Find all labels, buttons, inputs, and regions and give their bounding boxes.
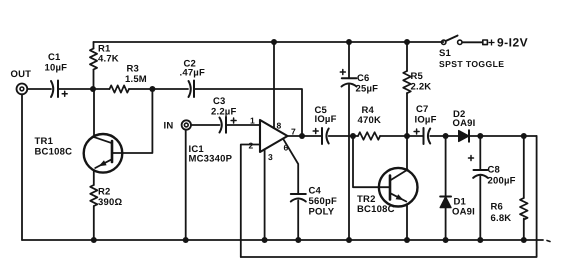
svg-text:BC108C: BC108C [35,147,73,158]
resistor R3 [110,64,147,93]
svg-text:C8: C8 [488,165,501,176]
wire IN ground drop [185,130,187,240]
resistor R6 [491,136,528,240]
wire C2 to output node corner [194,89,302,136]
wire TR2 emitter [406,204,408,240]
junction TR2 collector node [404,133,410,139]
wire D2 to right corner [469,135,537,137]
wire OUT ground drop [21,94,23,240]
svg-text:R5: R5 [411,71,424,82]
junction bus pin3 [262,237,268,243]
wire top supply rail [94,41,444,43]
svg-text:C6: C6 [357,73,370,84]
wire R4 to C7 [380,135,424,137]
svg-text:MC3340P: MC3340P [189,154,233,165]
junction output node [299,133,305,139]
junction bus D1 [443,237,449,243]
capacitor C3 [211,96,236,133]
wire TR2 base [353,136,390,187]
svg-text:1: 1 [250,116,255,126]
ground bus [22,239,543,241]
wire IN to C3 [192,124,220,126]
transistor TR1 [35,134,123,173]
wire C1 to R3 [58,88,110,90]
wire C3 to pin 1 [226,124,260,126]
capacitor C2 [180,59,205,98]
junction bus C4 [295,237,301,243]
junction rail pin8 [271,39,277,45]
wire C7 to D2 [430,135,459,137]
svg-text:C7: C7 [416,104,429,115]
svg-text:IN: IN [164,121,174,132]
junction node base riser [149,86,155,92]
junction rail C6 [346,39,352,45]
svg-text:470K: 470K [358,115,382,126]
svg-text:OA9I: OA9I [453,118,476,129]
svg-text:1.5M: 1.5M [125,74,147,85]
wire R3 to C2 [129,88,188,90]
junction TR2 base tap [350,133,356,139]
svg-text:C3: C3 [213,96,226,107]
capacitor C1 [45,52,68,97]
wire pin 2 feedback [241,145,260,258]
wire C5 to R4 [329,135,358,137]
resistor R4 [358,105,382,140]
capacitor C4 [291,186,337,218]
svg-text:10µF: 10µF [45,63,68,74]
wire TR1 base [112,89,152,153]
wire OUT to C1 [27,88,51,90]
wire R2 to ground bus [93,206,95,240]
junction bus TR1 [91,237,97,243]
svg-text:IOµF: IOµF [315,114,337,125]
svg-text:7: 7 [291,127,296,137]
svg-text:2.2K: 2.2K [411,82,432,93]
junction C8 top [477,133,483,139]
svg-text:OA9I: OA9I [452,207,475,218]
svg-text:S1: S1 [439,48,452,59]
junction bus C8 [477,237,483,243]
battery terminal +9-12V [483,36,528,50]
junction bus R6 [521,237,527,243]
resistor R1 [90,42,119,89]
capacitor C7 [414,104,437,144]
resistor R2 [90,185,122,208]
svg-text:C1: C1 [48,52,61,63]
bus end tick [547,241,550,242]
svg-text:.47µF: .47µF [180,68,205,79]
junction bus C6 [346,237,352,243]
junction node at R1 bottom [90,86,96,92]
svg-text:4.7K: 4.7K [98,54,119,65]
wire feedback return [241,136,537,257]
op-amp IC1 MC3340P [189,116,297,165]
wire pin 6 to C4 [283,139,298,194]
diode D1 [440,136,475,240]
svg-text:2.2µF: 2.2µF [211,107,236,118]
svg-text:R2: R2 [98,187,111,198]
junction rail R5 [404,39,410,45]
svg-text:SPST TOGGLE: SPST TOGGLE [439,59,504,69]
wire TR1 collector [93,89,95,137]
junction bus TR2 [404,237,410,243]
connector IN [164,120,192,131]
capacitor C8 [469,136,516,240]
svg-text:+: + [488,36,496,50]
svg-text:OUT: OUT [11,69,32,80]
svg-text:390Ω: 390Ω [98,197,122,208]
connector OUT [11,69,32,94]
junction D1 tap [443,133,449,139]
junction bus IN [183,237,189,243]
svg-text:POLY: POLY [309,207,335,218]
wire pin 8 to rail [273,42,275,128]
wire C4 to ground bus [297,201,299,241]
diode D2 [453,109,476,142]
svg-text:BC108C: BC108C [357,204,395,215]
svg-text:IOµF: IOµF [415,115,437,126]
svg-text:6.8K: 6.8K [491,213,512,224]
resistor R5 [403,42,431,136]
wire TR1 emitter [93,170,95,185]
switch S1 SPST [439,36,504,69]
svg-text:9-I2V: 9-I2V [497,36,528,50]
wire pin 3 to ground [264,149,266,240]
wire pin 7 output [288,135,323,137]
svg-text:200µF: 200µF [488,176,516,187]
capacitor C6 [340,42,378,240]
capacitor C5 [313,105,336,144]
svg-text:560pF: 560pF [309,196,337,207]
svg-text:R6: R6 [491,202,504,213]
svg-text:2: 2 [249,141,254,151]
svg-text:25µF: 25µF [356,84,379,95]
svg-text:C4: C4 [309,186,322,197]
wire TR2 collector [406,136,408,170]
svg-text:R3: R3 [127,64,140,75]
transistor TR2 [357,168,418,215]
svg-text:TR1: TR1 [35,136,54,147]
svg-text:8: 8 [277,121,282,131]
svg-text:3: 3 [268,152,273,162]
junction R6 top [521,133,527,139]
